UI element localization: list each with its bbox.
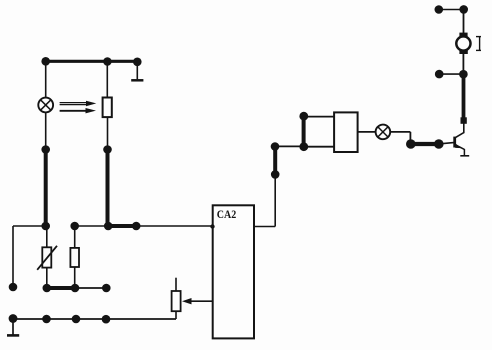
svg-text:CA2: CA2 <box>217 208 237 221</box>
